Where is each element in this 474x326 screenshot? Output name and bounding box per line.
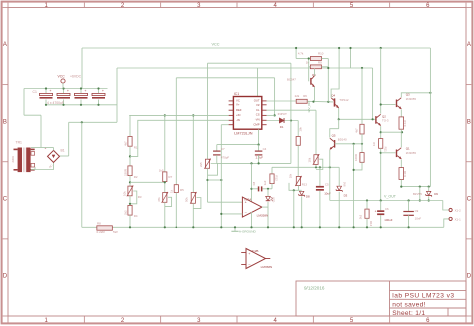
- svg-text:1k5: 1k5: [159, 168, 164, 172]
- svg-text:R9: R9: [318, 60, 322, 64]
- svg-text:–: –: [248, 262, 250, 266]
- svg-text:R16: R16: [369, 221, 373, 227]
- svg-text:BD140: BD140: [338, 138, 347, 142]
- svg-text:A: A: [467, 42, 471, 48]
- svg-text:Sheet: 1/1: Sheet: 1/1: [392, 310, 425, 317]
- svg-text:9/12/2016: 9/12/2016: [304, 285, 325, 290]
- svg-text:LED: LED: [272, 197, 276, 202]
- svg-text:5V6: 5V6: [342, 182, 346, 187]
- svg-text:+6VDC: +6VDC: [70, 75, 82, 79]
- svg-text:LM723LJN: LM723LJN: [234, 132, 253, 136]
- svg-text:100R: 100R: [354, 154, 358, 161]
- svg-text:+IN: +IN: [236, 113, 240, 117]
- svg-text:VCC: VCC: [212, 43, 220, 47]
- svg-text:0.1R: 0.1R: [403, 120, 407, 126]
- svg-text:V_OUT: V_OUT: [384, 195, 397, 199]
- svg-text:D3: D3: [344, 194, 348, 198]
- svg-text:10k: 10k: [298, 126, 302, 131]
- svg-text:+: +: [49, 89, 51, 93]
- svg-text:50k: 50k: [185, 197, 189, 202]
- svg-text:10k: 10k: [122, 191, 126, 196]
- svg-text:2k5: 2k5: [199, 162, 203, 167]
- svg-text:C7: C7: [221, 147, 225, 151]
- svg-text:B: B: [3, 119, 7, 125]
- svg-text:D8: D8: [306, 195, 310, 199]
- svg-text:V+: V+: [236, 102, 240, 106]
- svg-text:not saved!: not saved!: [392, 301, 425, 308]
- svg-text:D9: D9: [434, 192, 438, 196]
- svg-text:INPUT: INPUT: [278, 112, 287, 116]
- svg-text:R13: R13: [302, 182, 308, 186]
- svg-text:-VN: -VN: [255, 118, 260, 122]
- svg-text:LM358N: LM358N: [261, 265, 273, 269]
- svg-text:4k7: 4k7: [123, 141, 127, 146]
- svg-text:C6: C6: [385, 207, 389, 211]
- svg-text:R7: R7: [169, 175, 173, 179]
- svg-text:220R: 220R: [123, 169, 127, 176]
- svg-text:A: A: [3, 42, 7, 48]
- svg-text:R12: R12: [275, 175, 279, 181]
- svg-text:10k: 10k: [289, 173, 293, 178]
- svg-text:10k: 10k: [307, 157, 311, 162]
- svg-text:4 x 4700uF: 4 x 4700uF: [47, 101, 64, 105]
- svg-text:CL: CL: [256, 108, 260, 112]
- svg-text:47k: 47k: [157, 197, 161, 202]
- svg-text:IC1: IC1: [234, 92, 239, 96]
- svg-text:VCC: VCC: [58, 75, 66, 79]
- svg-text:2k2: 2k2: [123, 210, 127, 215]
- svg-text:BZV55: BZV55: [413, 192, 422, 196]
- svg-text:BC547: BC547: [287, 77, 296, 81]
- svg-text:22k: 22k: [295, 94, 300, 98]
- svg-text:+: +: [84, 89, 86, 93]
- svg-text:TIP112: TIP112: [339, 98, 348, 102]
- svg-text:–: –: [245, 211, 247, 215]
- svg-text:R1: R1: [134, 146, 138, 150]
- svg-text:470pF: 470pF: [221, 155, 229, 159]
- svg-text:Q4: Q4: [331, 94, 335, 98]
- svg-text:R6: R6: [303, 94, 307, 98]
- svg-text:TO-3: TO-3: [382, 119, 389, 123]
- svg-text:1k: 1k: [170, 189, 174, 193]
- svg-text:1R: 1R: [372, 142, 376, 146]
- svg-text:+: +: [248, 252, 250, 256]
- svg-text:230V: 230V: [11, 156, 15, 163]
- svg-text:lab PSU LM723 v3: lab PSU LM723 v3: [392, 293, 454, 300]
- svg-text:-IN: -IN: [236, 118, 240, 122]
- svg-text:R10: R10: [318, 51, 324, 55]
- svg-text:Q5: Q5: [332, 134, 336, 138]
- svg-text:10nF: 10nF: [415, 217, 422, 221]
- svg-text:1uF: 1uF: [263, 180, 267, 185]
- svg-text:VZ: VZ: [256, 103, 260, 107]
- svg-text:B1: B1: [61, 148, 65, 152]
- svg-text:C1: C1: [33, 90, 37, 94]
- svg-text:2N3055: 2N3055: [406, 97, 417, 101]
- svg-text:C9: C9: [415, 209, 419, 213]
- svg-text:2N3055: 2N3055: [406, 151, 417, 155]
- svg-text:IC2B: IC2B: [252, 249, 259, 253]
- svg-text:+: +: [67, 89, 69, 93]
- svg-text:0.1R: 0.1R: [403, 171, 407, 177]
- svg-text:R3: R3: [138, 195, 142, 199]
- svg-text:CMP: CMP: [253, 123, 259, 127]
- svg-text:R5: R5: [180, 188, 184, 192]
- svg-text:CS: CS: [256, 113, 260, 117]
- svg-text:R11: R11: [383, 147, 387, 152]
- svg-text:4.7k: 4.7k: [298, 51, 304, 55]
- svg-text:B: B: [467, 119, 471, 125]
- svg-text:D1: D1: [280, 125, 284, 129]
- svg-text:2.2uF: 2.2uF: [256, 155, 264, 159]
- svg-text:REF: REF: [236, 108, 242, 112]
- svg-text:A-GROUND: A-GROUND: [239, 229, 257, 233]
- svg-text:D: D: [467, 274, 472, 280]
- svg-text:Q6: Q6: [312, 73, 316, 77]
- svg-text:5W: 5W: [113, 230, 118, 234]
- svg-text:C: C: [3, 196, 8, 202]
- svg-text:C4: C4: [263, 147, 267, 151]
- svg-text:IC2A: IC2A: [244, 198, 252, 202]
- svg-text:4k7: 4k7: [354, 128, 358, 133]
- svg-text:C8: C8: [252, 181, 256, 185]
- svg-text:3k3: 3k3: [359, 214, 363, 219]
- svg-text:LM358N: LM358N: [257, 213, 269, 217]
- svg-text:R2: R2: [134, 175, 138, 179]
- svg-text:C5: C5: [325, 183, 329, 187]
- svg-text:0.22R: 0.22R: [97, 230, 106, 234]
- svg-text:X1-2: X1-2: [455, 208, 461, 212]
- svg-text:+: +: [375, 210, 377, 214]
- svg-text:100uF: 100uF: [384, 218, 392, 222]
- svg-text:+: +: [102, 89, 104, 93]
- svg-text:C: C: [467, 196, 472, 202]
- svg-text:12V_DC: 12V_DC: [307, 101, 311, 113]
- svg-text:TR1: TR1: [16, 141, 23, 145]
- svg-text:R8: R8: [97, 221, 101, 225]
- svg-text:X1-1: X1-1: [455, 217, 461, 221]
- svg-text:D: D: [3, 274, 8, 280]
- svg-text:R4: R4: [134, 214, 138, 218]
